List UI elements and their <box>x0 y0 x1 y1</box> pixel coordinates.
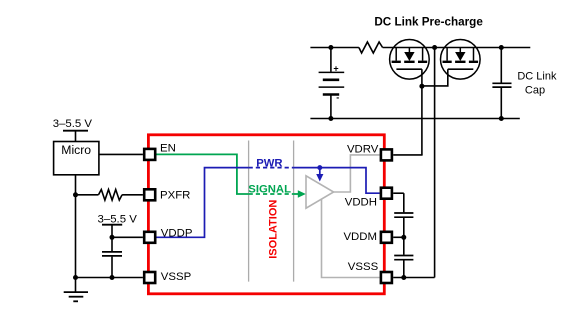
net: SIGNAL green arrow into driver <box>294 193 299 195</box>
node: junction at VSSP row <box>73 275 78 280</box>
pin VDDH <box>381 188 392 199</box>
wire: VDDM pin to chain <box>393 236 404 238</box>
node: cap top junction <box>499 45 504 50</box>
wire: gate node down to VDRV <box>421 86 423 155</box>
wire: VDDH pin to cap chain <box>393 192 404 194</box>
svg-text:VSSS: VSSS <box>348 261 379 273</box>
net: PWR blue dashed across barrier <box>249 167 294 169</box>
net: PWR blue to VDDH <box>294 168 380 194</box>
pin VDRV <box>381 149 392 160</box>
svg-text:PXFR: PXFR <box>160 189 190 201</box>
wire: VSSP row <box>76 277 143 279</box>
node: battery top junction <box>328 45 333 50</box>
wire: VDRV pin stub <box>393 154 422 156</box>
transistor Q1 body circle <box>390 40 430 80</box>
wire: top rail left segment (battery to resistor) <box>310 47 359 49</box>
pin VSSS <box>381 272 392 283</box>
pin PXFR <box>144 189 155 200</box>
node: junction at PXFR row <box>73 192 78 197</box>
pin VDDM <box>381 232 392 243</box>
pin VDDP <box>144 232 155 243</box>
svg-text:VDDP: VDDP <box>161 228 193 240</box>
svg-text:+: + <box>333 64 338 74</box>
wire: Micro ground vertical <box>75 175 77 292</box>
battery BT1 <box>319 48 345 119</box>
op-amp driver U2 (gray triangle) <box>306 176 334 208</box>
wire: supply bar to Micro <box>75 131 77 142</box>
svg-text:VDRV: VDRV <box>347 144 379 156</box>
resistor R-precharge zigzag <box>359 42 383 53</box>
node: cap bottom junction <box>499 116 504 121</box>
node: PWR junction dot (blue) <box>317 165 322 170</box>
capacitor C3 (VDDM-VSSS) <box>394 256 413 278</box>
svg-text:VDDH: VDDH <box>345 196 377 208</box>
pin EN <box>144 149 155 160</box>
node: VDDP junction <box>110 235 115 240</box>
resistor R1 zigzag <box>99 190 123 201</box>
transistor Q2 internals (MOSFET with body diode) <box>443 48 479 70</box>
wire: driver ground to VSSS (gray) <box>322 199 380 277</box>
wire: driver output to VDRV (gray) <box>334 155 380 192</box>
net: PWR blue from VDDP <box>157 168 249 238</box>
power rail bar (VDDP supply) <box>102 224 122 226</box>
node: chain bottom junction <box>401 275 406 280</box>
net: SIGNAL green from EN <box>157 154 249 194</box>
svg-text:EN: EN <box>160 142 176 154</box>
node: gate junction dot <box>419 84 424 89</box>
transistor Q2 body circle <box>441 40 481 80</box>
svg-text:PWR: PWR <box>256 157 282 169</box>
transistor Q1 internals (MOSFET with body diode) <box>392 48 428 70</box>
wire: Q2 gate drop and link to gate node <box>422 69 448 86</box>
wire: supply bar down to VDDP node <box>111 225 113 238</box>
node: rail junction between Q1 and Q2 <box>432 45 437 50</box>
svg-text:VDDM: VDDM <box>343 231 377 243</box>
block: Micro <box>54 142 99 175</box>
wire: resistor to PXFR pin <box>122 194 143 196</box>
capacitor DC Link Cap <box>492 48 511 119</box>
svg-text:DC Link Pre-charge: DC Link Pre-charge <box>374 15 483 28</box>
node: battery bottom junction <box>328 116 333 121</box>
wire: top rail through MOSFETs to DC link cap <box>383 47 531 49</box>
svg-text:DC Link: DC Link <box>517 71 557 83</box>
svg-text:ISOLATION: ISOLATION <box>268 200 280 259</box>
svg-text:Cap: Cap <box>525 84 545 96</box>
svg-text:-: - <box>336 92 339 102</box>
node: VDDM junction <box>401 235 406 240</box>
wire: common node down to VSSS <box>434 48 436 278</box>
node: C1 bottom junction <box>110 275 115 280</box>
capacitor C1 (VDDP decoupling) <box>102 237 122 277</box>
isolation barrier line left <box>248 141 250 282</box>
wire: to VDDP pin <box>112 236 143 238</box>
isolation barrier line right <box>293 141 295 282</box>
wire: to resistor R1 <box>76 194 99 196</box>
svg-text:VSSP: VSSP <box>161 271 191 283</box>
svg-text:Micro: Micro <box>61 143 91 157</box>
IC U1 boundary (red) <box>148 135 384 294</box>
net: SIGNAL green dashed across barrier <box>249 193 294 195</box>
net: PWR blue arrow into driver top <box>319 168 321 175</box>
ground symbol <box>64 292 88 301</box>
wire: bottom rail <box>310 118 519 120</box>
wire: Q1 gate drop to gate node <box>421 69 423 86</box>
svg-text:SIGNAL: SIGNAL <box>248 184 291 196</box>
capacitor C2 (VDDH-VDDM) <box>394 193 413 255</box>
wire: VSSS pin to common node <box>393 277 434 279</box>
wire: Micro to EN pin <box>99 153 143 155</box>
power rail bar (micro supply) <box>63 130 88 132</box>
svg-text:3–5.5 V: 3–5.5 V <box>53 118 93 130</box>
svg-text:3–5.5 V: 3–5.5 V <box>98 213 138 225</box>
pin VSSP <box>144 272 155 283</box>
